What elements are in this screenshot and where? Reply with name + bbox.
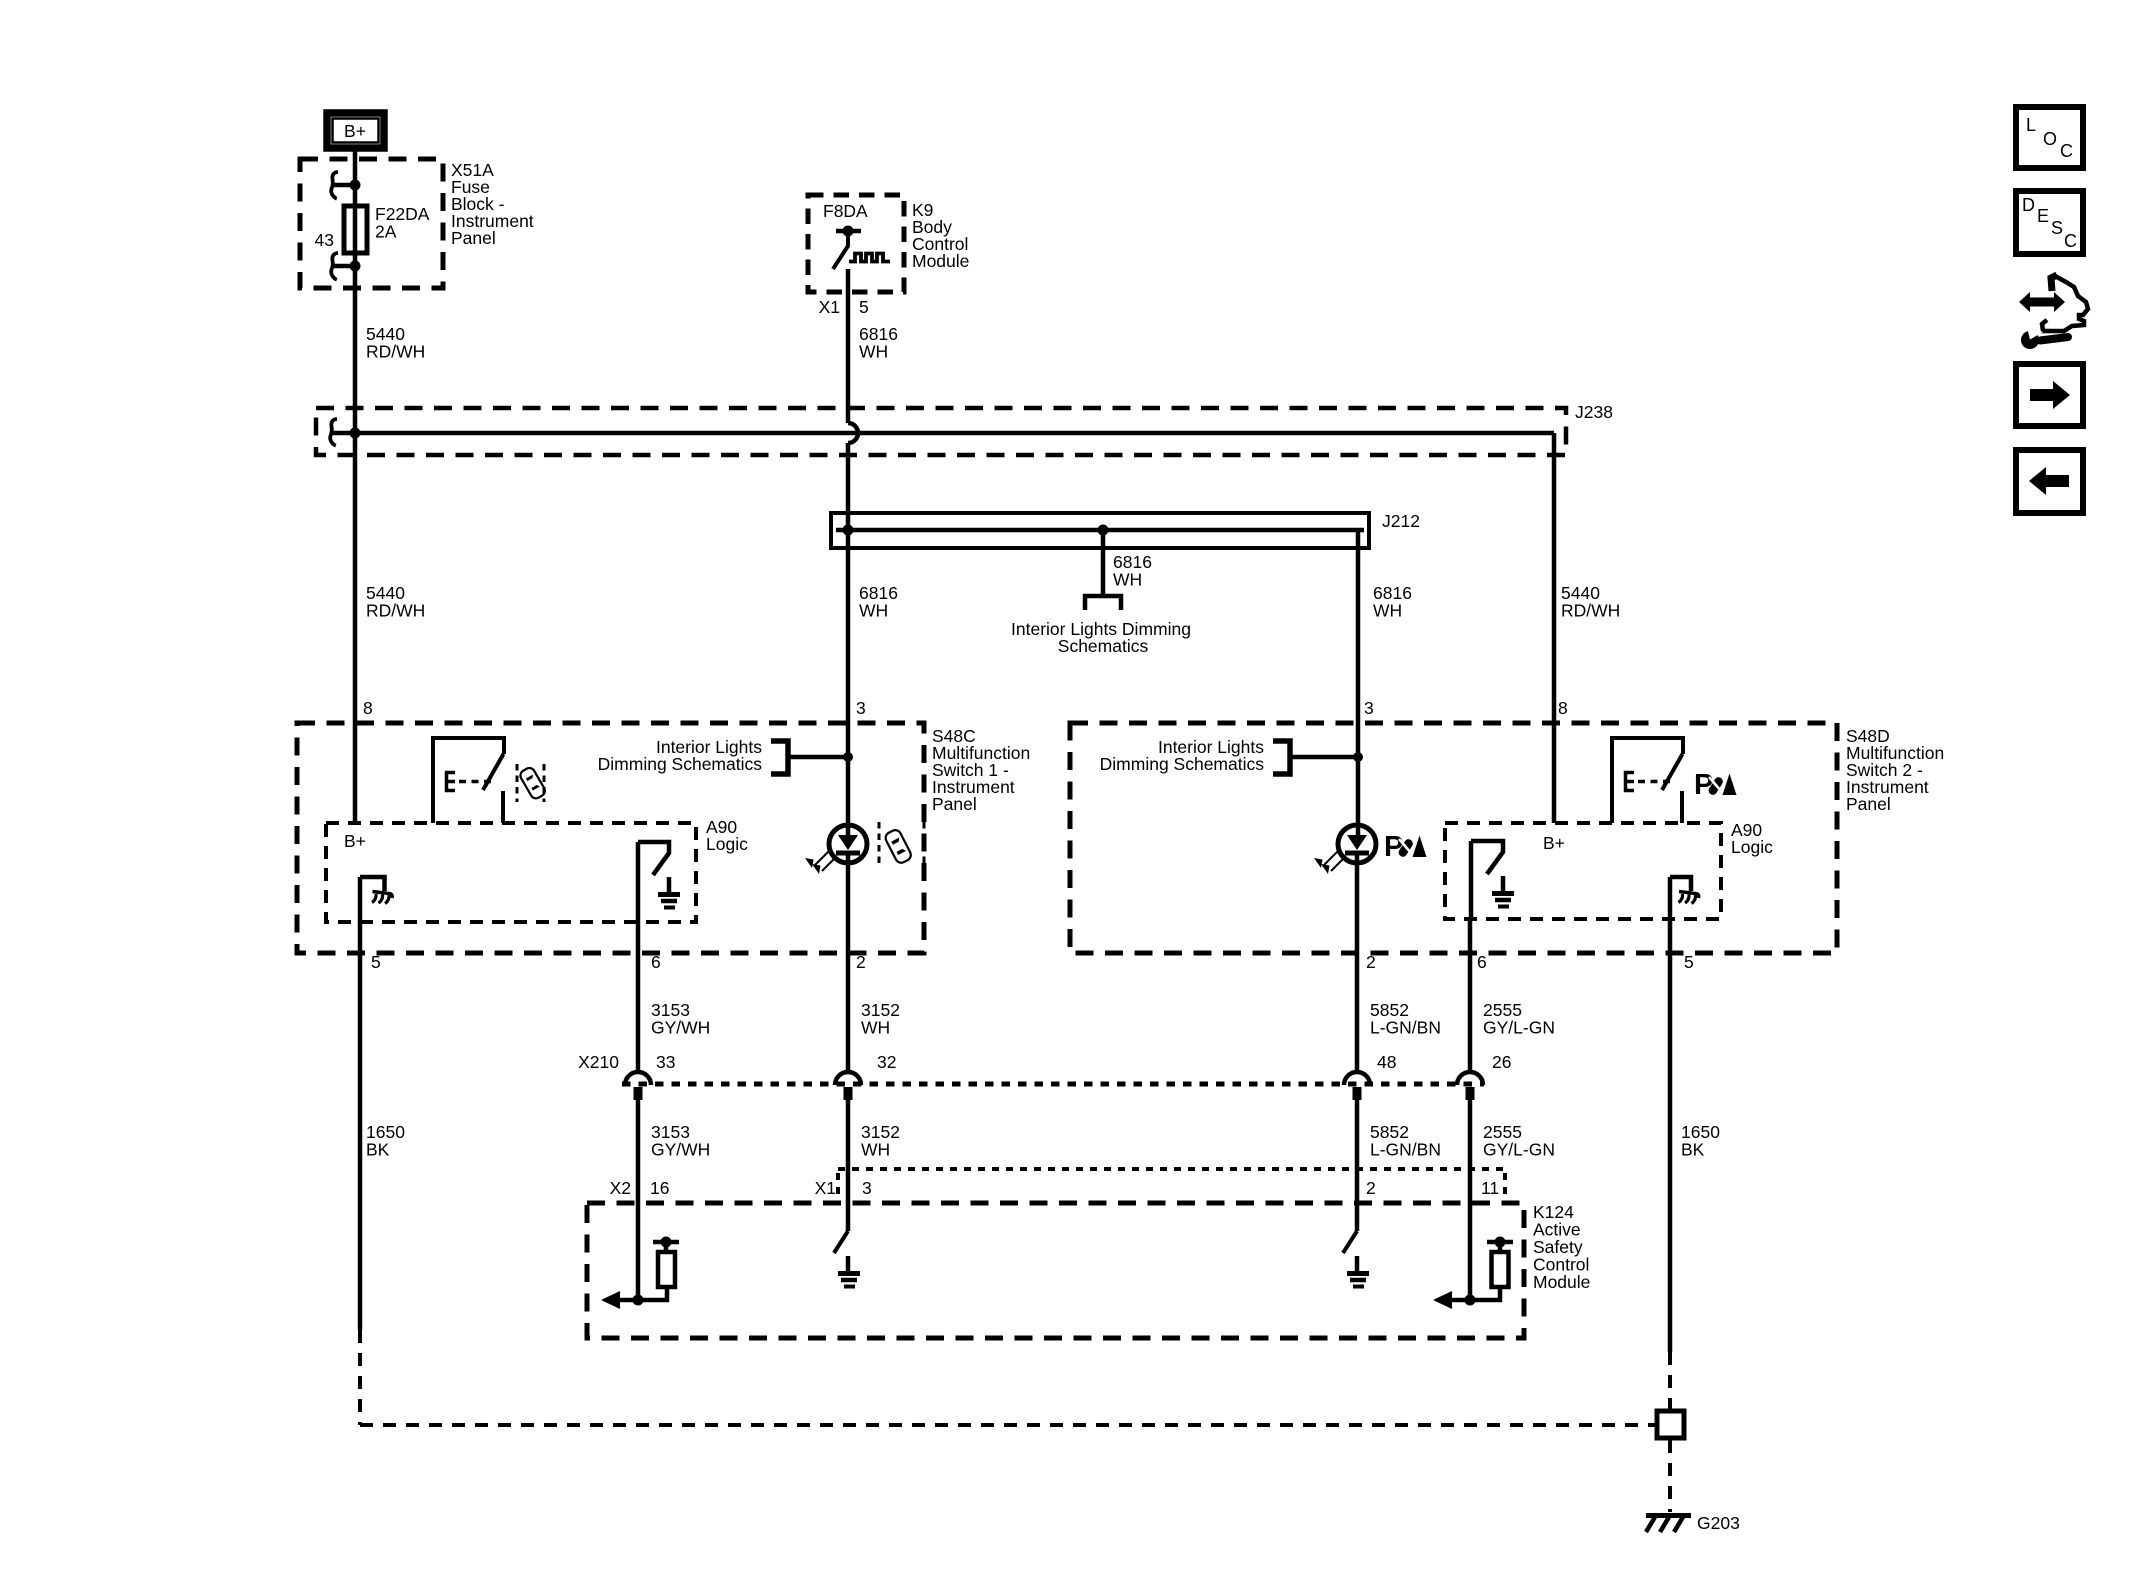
LED indicator in S48D	[1338, 825, 1376, 863]
svg-text:Logic: Logic	[706, 834, 748, 854]
nav icon next arrow box	[2016, 364, 2083, 426]
door-ajar car icon beside S48C LED	[878, 822, 881, 866]
svg-text:3: 3	[862, 1178, 872, 1198]
svg-text:33: 33	[656, 1052, 675, 1072]
switch actuator E in S48D	[1626, 773, 1635, 791]
svg-text:E: E	[2037, 206, 2049, 226]
svg-text:P: P	[1694, 769, 1713, 801]
svg-text:P: P	[1384, 831, 1403, 863]
svg-text:X1: X1	[819, 297, 840, 317]
wire 6816 WH right drop from J212 to S48D pin 3 down to LED	[1356, 530, 1361, 838]
svg-text:WH: WH	[1373, 601, 1402, 621]
wire from dimming bracket to node on 6816 WH in S48C	[787, 755, 848, 760]
connector K124 dotted stub right	[1503, 1173, 1507, 1198]
wire 6816 WH tap to off-page reference	[1101, 530, 1106, 594]
svg-text:C: C	[2060, 141, 2073, 161]
svg-text:Dimming Schematics: Dimming Schematics	[1100, 754, 1265, 774]
wire 1650 BK from S48C pin 5 down	[358, 921, 363, 1330]
multifunction switch S48D dashed box	[1070, 723, 1837, 953]
dimming bracket symbol in S48C	[771, 741, 788, 774]
wire 3152 WH from S48C LED to X210 pin 32	[846, 854, 851, 1071]
wire 1650 BK dashed right vertical into splice	[1668, 1352, 1672, 1409]
svg-text:GY/L-GN: GY/L-GN	[1483, 1140, 1555, 1160]
svg-text:5: 5	[1684, 952, 1694, 972]
svg-text:Panel: Panel	[932, 794, 977, 814]
wire 6816 WH from hop through J212 bus into S48C pin 3 down to LED	[846, 443, 851, 838]
svg-text:Module: Module	[912, 251, 969, 271]
svg-text:X1: X1	[815, 1178, 836, 1198]
park assist icon beside S48D LED	[1384, 831, 1427, 863]
svg-text:L-GN/BN: L-GN/BN	[1370, 1018, 1441, 1038]
fuse F22DA terminal clip bottom	[331, 253, 338, 280]
solid state driver in K9 F8DA	[836, 229, 861, 234]
logic module A90 dashed box in S48C	[326, 823, 696, 922]
wire J212 bus 6816 WH	[836, 528, 1364, 533]
svg-text:Schematics: Schematics	[1058, 636, 1149, 656]
svg-text:2: 2	[1366, 952, 1376, 972]
svg-text:43: 43	[315, 230, 334, 250]
svg-text:GY/L-GN: GY/L-GN	[1483, 1018, 1555, 1038]
nav icon back arrow box	[2016, 450, 2083, 513]
svg-text:L: L	[2026, 115, 2036, 135]
fuse block X51A dashed box	[300, 159, 443, 288]
junction of 6816 WH on J212 bus	[843, 525, 854, 536]
svg-text:6: 6	[1477, 952, 1487, 972]
svg-text:WH: WH	[859, 601, 888, 621]
logic module A90 dashed box in S48D	[1445, 823, 1721, 919]
svg-text:48: 48	[1377, 1052, 1396, 1072]
wire 1650 BK from S48D pin 5 down	[1668, 919, 1673, 1352]
svg-text:WH: WH	[861, 1140, 890, 1160]
wire 1650 BK dashed from splice to ground G203	[1668, 1440, 1672, 1512]
wire from dimming bracket to node on 6816 WH in S48D	[1289, 755, 1358, 760]
svg-text:BK: BK	[366, 1140, 390, 1160]
pull-up resistor network on K124 pin 16 input	[633, 1295, 644, 1306]
junction of 5440 RD/WH on J238 bus	[350, 428, 361, 439]
svg-text:8: 8	[363, 698, 373, 718]
svg-text:J212: J212	[1382, 511, 1420, 531]
input switch to ground for pin 2 in K124	[1343, 1231, 1357, 1253]
svg-text:B+: B+	[344, 831, 366, 851]
logic driver transistor in S48C A90	[636, 842, 641, 922]
svg-text:11: 11	[1481, 1178, 1499, 1198]
svg-text:Dimming Schematics: Dimming Schematics	[598, 754, 763, 774]
signal ground under K124 pin 2 switch	[1355, 1256, 1360, 1272]
door-ajar car icon beside S48C switch	[516, 764, 519, 802]
wire 5852 L-GN/BN from X210 to K124 pin 2 switch	[1355, 1100, 1360, 1231]
svg-text:G203: G203	[1697, 1513, 1740, 1533]
svg-text:Module: Module	[1533, 1272, 1590, 1292]
nav icon LOC box	[2016, 107, 2083, 168]
fuse F22DA element	[344, 206, 367, 253]
svg-text:BK: BK	[1681, 1140, 1705, 1160]
signal ground under K124 pin 3 switch	[846, 1256, 851, 1272]
svg-text:GY/WH: GY/WH	[651, 1018, 710, 1038]
svg-text:S: S	[2051, 218, 2063, 238]
svg-text:2: 2	[1366, 1178, 1376, 1198]
svg-text:16: 16	[650, 1178, 669, 1198]
connector K124 X1/X2 dotted line	[838, 1167, 1505, 1171]
svg-text:B+: B+	[1543, 833, 1565, 853]
svg-text:WH: WH	[861, 1018, 890, 1038]
switch actuator E in S48C	[447, 773, 456, 791]
wire 2555 GY/L-GN from S48D A90 pin 6 to X210 pin 26	[1468, 919, 1473, 1071]
connector X210 terminal 48	[1344, 1072, 1370, 1085]
svg-text:WH: WH	[1113, 570, 1142, 590]
svg-text:D: D	[2022, 195, 2035, 215]
svg-text:J238: J238	[1575, 402, 1613, 422]
wire 3153 GY/WH from S48C A90 pin 6 to X210 pin 33	[636, 922, 641, 1071]
svg-text:RD/WH: RD/WH	[366, 342, 425, 362]
svg-text:F8DA: F8DA	[823, 201, 868, 221]
junction above fuse F22DA	[350, 180, 361, 191]
svg-text:2A: 2A	[375, 222, 397, 242]
power symbol B+ box	[327, 113, 384, 148]
fuse F22DA terminal clip top	[331, 172, 338, 199]
wire 3152 WH from X210 to K124 X1 pin 3 switch	[846, 1100, 851, 1231]
wire J238 bus 5440 RD/WH	[330, 431, 1554, 436]
svg-text:Panel: Panel	[451, 228, 496, 248]
connector X210 terminal 26	[1457, 1072, 1483, 1085]
svg-text:X210: X210	[578, 1052, 619, 1072]
active safety control module K124 dashed box	[587, 1203, 1524, 1338]
splice pack J212 box	[831, 513, 1369, 548]
logic driver transistor in S48D A90	[1469, 841, 1474, 919]
svg-text:WH: WH	[859, 342, 888, 362]
svg-text:Panel: Panel	[1846, 794, 1891, 814]
chassis ground G203	[1646, 1513, 1691, 1518]
LED indicator in S48C	[829, 825, 867, 863]
svg-text:8: 8	[1558, 698, 1568, 718]
battery feed stub with chassis clip ground in S48C A90	[360, 877, 385, 891]
connector X210 terminal 33	[625, 1072, 651, 1085]
svg-text:6: 6	[651, 952, 661, 972]
park assist icon beside S48D switch	[1694, 769, 1737, 801]
battery feed stub with chassis clip ground in S48D A90	[1670, 877, 1691, 891]
pull-up resistor network on K124 pin 11 input	[1465, 1295, 1476, 1306]
junction below fuse F22DA	[350, 261, 361, 272]
connector X210 terminal 32	[835, 1072, 861, 1085]
svg-text:RD/WH: RD/WH	[1561, 601, 1620, 621]
connector K124 dotted stub left	[836, 1173, 840, 1198]
svg-text:32: 32	[877, 1052, 896, 1072]
wire 5440 RD/WH from B+ through X51A fuse block down to S48C pin 8	[353, 151, 358, 823]
wire 5852 L-GN/BN from S48D LED to X210 pin 48	[1355, 854, 1360, 1071]
wire 3153 GY/WH from X210 to K124 X2 pin 16 resistor node	[636, 1100, 641, 1300]
signal ground in S48C A90	[667, 877, 672, 893]
svg-text:3: 3	[856, 698, 866, 718]
svg-text:GY/WH: GY/WH	[651, 1140, 710, 1160]
svg-text:26: 26	[1492, 1052, 1511, 1072]
junction of J212 tap	[1098, 525, 1109, 536]
input switch to ground for pin 3 in K124	[834, 1231, 848, 1253]
junction of dimming tap on 6816 WH in S48D	[1353, 752, 1363, 762]
ganged switch symbol in S48C	[433, 738, 504, 823]
terminal clip at left end of J238	[330, 419, 337, 446]
svg-text:O: O	[2043, 129, 2057, 149]
multifunction switch S48C dashed box	[297, 723, 924, 953]
svg-text:X2: X2	[610, 1178, 631, 1198]
svg-text:L-GN/BN: L-GN/BN	[1370, 1140, 1441, 1160]
wire hop of 6816 WH over J238 bus	[848, 423, 858, 443]
nav icon DESC box	[2016, 191, 2083, 254]
svg-text:C: C	[2064, 231, 2077, 251]
splice square on 1650 BK route	[1657, 1411, 1684, 1438]
wire 1650 BK dashed route horizontal to splice	[360, 1423, 1655, 1427]
svg-text:5: 5	[371, 952, 381, 972]
signal ground in S48D A90	[1501, 876, 1506, 892]
splice pack J238 dashed box	[316, 408, 1566, 455]
dimming bracket symbol in S48D	[1273, 741, 1290, 774]
wire 5440 RD/WH right drop from J238 to S48D pin 8	[1552, 433, 1557, 823]
wire 2555 GY/L-GN from X210 to K124 pin 11 resistor node	[1468, 1100, 1473, 1300]
wire 1650 BK dashed route left vertical	[358, 1330, 362, 1425]
svg-text:B+: B+	[344, 121, 366, 141]
svg-text:3: 3	[1364, 698, 1374, 718]
junction of dimming tap on 6816 WH in S48C	[843, 752, 853, 762]
svg-text:2: 2	[856, 952, 866, 972]
connector X210 dotted line	[622, 1082, 1484, 1087]
body control module K9 F8DA dashed box	[808, 195, 904, 292]
wire 6816 WH from K9 F8DA driver down to J238 hop	[846, 269, 851, 423]
svg-text:RD/WH: RD/WH	[366, 601, 425, 621]
off-page reference symbol below J212	[1085, 596, 1121, 610]
svg-text:Logic: Logic	[1731, 837, 1773, 857]
svg-text:5: 5	[859, 297, 869, 317]
ganged switch symbol in S48D	[1612, 738, 1683, 823]
nav icon car repair shuttle	[2019, 292, 2065, 312]
